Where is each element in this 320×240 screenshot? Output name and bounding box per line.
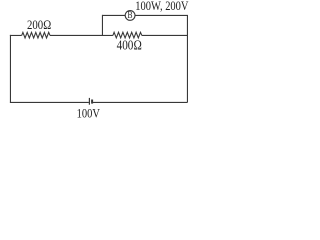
svg-text:100W, 200V: 100W, 200V bbox=[135, 1, 189, 14]
svg-text:400Ω: 400Ω bbox=[117, 37, 142, 52]
svg-text:200Ω: 200Ω bbox=[27, 17, 51, 32]
resistor R1 200Ω (zigzag) bbox=[22, 32, 50, 38]
resistor R2 400Ω (zigzag) bbox=[113, 32, 142, 38]
wire: bottom segment, left of battery bbox=[10, 101, 89, 103]
wire: left vertical (top-left to bottom-left corner) bbox=[9, 35, 11, 103]
battery V1: short thick plate bbox=[91, 100, 93, 104]
svg-text:B: B bbox=[128, 11, 133, 21]
battery V1: long thin plate bbox=[88, 98, 90, 105]
svg-text:100V: 100V bbox=[77, 106, 101, 120]
wire: top middle segment (200Ω to junction node) bbox=[50, 34, 103, 36]
wire: bulb branch left segment bbox=[102, 14, 125, 16]
wire: 400Ω right lead to right vertical bbox=[142, 34, 188, 36]
wire: top wire from junction to 400Ω bbox=[102, 34, 113, 36]
wire: right vertical bbox=[186, 35, 188, 102]
lamp B (bulb circle) bbox=[125, 11, 135, 21]
wire: bulb branch right segment + right drop to main wire bbox=[135, 15, 187, 35]
node: parallel-branch junction, riser up to bulb branch bbox=[101, 15, 103, 36]
wire: top-left lead into 200Ω resistor bbox=[10, 34, 22, 36]
wire: bottom segment, right of battery bbox=[93, 101, 188, 103]
